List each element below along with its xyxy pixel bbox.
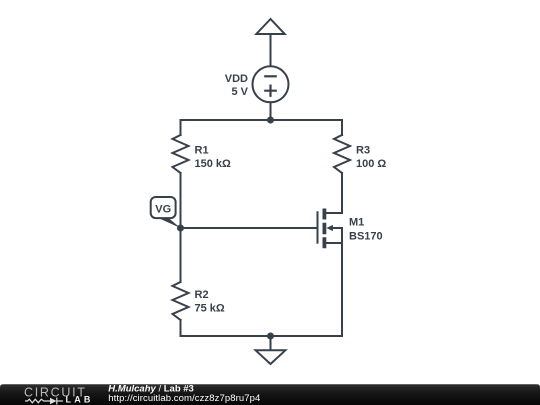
svg-text:VG: VG — [155, 203, 171, 215]
svg-text:M1: M1 — [349, 217, 364, 229]
resistor R3 zigzag — [334, 135, 350, 173]
node VG label box — [151, 197, 176, 218]
svg-text:5 V: 5 V — [231, 86, 248, 98]
wire top rail — [181, 119, 343, 121]
svg-text:R1: R1 — [195, 145, 209, 157]
CircuitLab logo diode triangle — [50, 398, 57, 405]
voltage source plus sign — [265, 86, 275, 96]
transistor M1 channel bars — [322, 209, 326, 249]
wire VDD arrow to source — [270, 34, 272, 66]
junction dot node VG — [177, 225, 184, 232]
ground stub wire — [270, 336, 272, 350]
wire R1 to node VG — [180, 173, 182, 228]
wire node VG to R2 — [180, 228, 182, 282]
svg-text:LAB: LAB — [66, 394, 94, 404]
junction dot bottom rail — [267, 333, 274, 340]
svg-text:150 kΩ: 150 kΩ — [195, 158, 232, 170]
wire top rail to R1 — [180, 120, 182, 135]
wire source to top rail — [270, 102, 272, 120]
wire R3 to drain — [327, 173, 342, 213]
VDD power symbol — [256, 19, 284, 34]
svg-text:VDD: VDD — [225, 73, 248, 85]
voltage source V1 VDD 5V circle — [253, 66, 289, 102]
transistor M1 gate plate — [317, 212, 319, 242]
svg-text:BS170: BS170 — [349, 231, 383, 243]
voltage source minus sign — [265, 75, 275, 77]
junction dot top rail — [267, 117, 274, 124]
svg-text:R2: R2 — [195, 289, 209, 301]
wire R2 to bottom rail — [180, 320, 182, 336]
wire top rail to R3 — [341, 120, 343, 135]
resistor R1 zigzag — [173, 135, 189, 173]
wire source to bottom rail — [327, 243, 342, 336]
footer bar — [0, 384, 540, 405]
transistor M1 body wire — [332, 228, 342, 243]
svg-text:75 kΩ: 75 kΩ — [195, 302, 225, 314]
svg-text:100 Ω: 100 Ω — [356, 158, 386, 170]
ground symbol — [256, 350, 286, 364]
CircuitLab logo resistor-diode glyph — [25, 398, 63, 405]
wire gate — [181, 227, 318, 229]
wire bottom rail — [181, 335, 343, 337]
transistor M1 body arrow — [326, 225, 333, 231]
svg-text:R3: R3 — [356, 145, 370, 157]
resistor R2 zigzag — [173, 282, 189, 320]
svg-text:http://circuitlab.com/czz8z7p8: http://circuitlab.com/czz8z7p8ru7p4 — [108, 393, 260, 404]
node VG callout wedge — [158, 218, 181, 228]
